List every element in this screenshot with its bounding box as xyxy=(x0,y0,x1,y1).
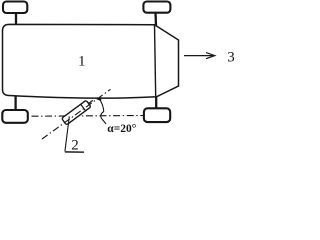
element 2 (inclined damper) xyxy=(62,97,96,125)
svg-text:3: 3 xyxy=(227,50,235,66)
label 2 underline xyxy=(65,151,84,153)
svg-text:2: 2 xyxy=(71,138,79,154)
svg-text:1: 1 xyxy=(78,53,86,69)
motion arrow wire xyxy=(184,55,214,57)
axle rear-right xyxy=(155,97,157,109)
wheel rear-right xyxy=(144,108,170,122)
axle front-left xyxy=(15,13,17,25)
leader squiggle to angle label xyxy=(101,112,106,125)
axle front-right xyxy=(154,13,157,26)
rear axle center line (dash-dot) xyxy=(32,115,144,118)
motion arrowhead xyxy=(206,53,215,59)
vehicle body 1 xyxy=(3,24,179,98)
leader wire to label 2 xyxy=(65,117,69,152)
body/nose divider wire xyxy=(155,25,156,97)
angle arc xyxy=(99,98,104,111)
axle rear-left xyxy=(14,96,16,111)
wheel front-right xyxy=(143,2,170,13)
wheel front-left xyxy=(3,2,27,14)
angle arc arrowhead xyxy=(96,97,101,101)
wheel rear-left xyxy=(2,110,28,123)
svg-text:α=20°: α=20° xyxy=(107,123,136,135)
inclined center line of element 2 (dash-dot) xyxy=(42,89,111,139)
